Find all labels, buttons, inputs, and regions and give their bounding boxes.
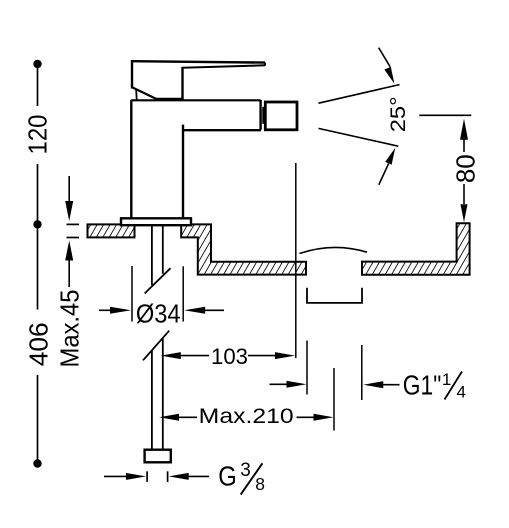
svg-text:25°: 25° [387,96,410,132]
svg-text:Max.45: Max.45 [55,290,85,368]
svg-text:Max.210: Max.210 [199,405,294,428]
svg-text:Ø34: Ø34 [136,298,181,328]
svg-text:80: 80 [450,154,480,183]
svg-text:4: 4 [457,382,466,401]
svg-text:8: 8 [255,474,265,494]
svg-text:406: 406 [24,322,54,366]
svg-text:G: G [218,460,237,491]
svg-text:120: 120 [23,115,53,155]
svg-text:103: 103 [211,344,248,369]
svg-text:G1": G1" [403,369,442,400]
svg-text:1: 1 [442,370,451,389]
svg-text:3: 3 [240,460,251,481]
